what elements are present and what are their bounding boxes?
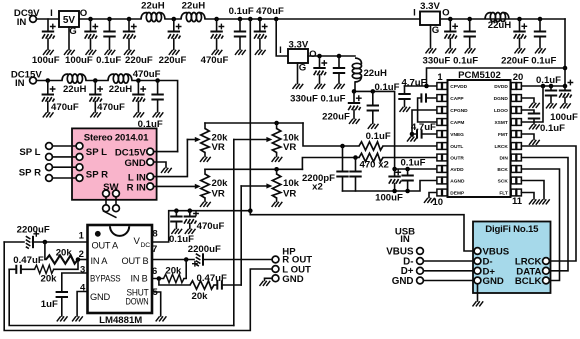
pin BCLK U7: [543, 277, 550, 284]
ground C7: [235, 50, 246, 55]
resistor R4 20k in A: [35, 260, 79, 274]
svg-text:470uF: 470uF: [197, 221, 225, 232]
terminal SPL+: [46, 143, 83, 150]
ground 5V G: [64, 50, 75, 55]
svg-text:220uF: 220uF: [501, 56, 529, 67]
capacitor C37 0.47uF in B: [217, 280, 241, 289]
ground C34: [171, 229, 182, 234]
ground VR1: [200, 157, 211, 162]
svg-text:IN: IN: [15, 78, 25, 89]
svg-text:IN B: IN B: [131, 273, 148, 283]
svg-text:0.1uF: 0.1uF: [320, 94, 345, 105]
svg-text:VR: VR: [212, 142, 225, 153]
wire U3 G pin: [430, 25, 432, 48]
svg-text:OUT A: OUT A: [92, 240, 119, 250]
ground DGND: [529, 103, 540, 108]
ground pin5 U6: [156, 316, 167, 321]
svg-text:7: 7: [152, 244, 157, 255]
ground stereo GND: [161, 168, 172, 173]
pin GND U7: [474, 277, 481, 301]
ground C12: [153, 112, 164, 117]
svg-text:GND: GND: [124, 158, 145, 169]
label USB IN: [395, 226, 415, 245]
svg-text:G: G: [299, 62, 306, 73]
wire AGND bottom line: [343, 181, 437, 192]
capacitor C22 flying 4.7uF CAPP-CAPM: [418, 93, 437, 122]
svg-text:5V: 5V: [63, 15, 76, 26]
wiper VR4 arrow: [241, 183, 272, 188]
label VR2 10k VR: [283, 133, 300, 154]
svg-text:0.1uF: 0.1uF: [366, 131, 391, 142]
capacitor C3 0.1uF: [103, 17, 115, 50]
label VR3 20k VR: [212, 178, 229, 200]
regulator U3 3.3V: [420, 1, 440, 25]
wiper VR2 arrow: [234, 137, 273, 142]
pin boxes U4 left: [437, 83, 447, 196]
capacitor C32 0.47uF in A: [9, 265, 34, 274]
svg-text:FMT: FMT: [498, 132, 508, 138]
terminal R OUT: [272, 256, 279, 263]
svg-text:2200uF: 2200uF: [17, 224, 50, 235]
wire 5V feed down: [248, 17, 253, 211]
capacitor C13 330uF: [313, 54, 327, 84]
svg-text:22uH: 22uH: [63, 84, 87, 95]
wire CPGND pin3: [410, 110, 437, 136]
svg-text:20k: 20k: [212, 178, 229, 189]
svg-text:0.1uF: 0.1uF: [540, 123, 565, 134]
svg-text:0.1uF: 0.1uF: [531, 56, 556, 67]
capacitor C24 2200pF: [336, 144, 348, 191]
terminal D- external: [417, 258, 475, 265]
svg-text:330uF: 330uF: [423, 56, 451, 67]
ground SCK: [539, 199, 550, 204]
ground C1: [43, 50, 54, 55]
ground C35: [185, 229, 196, 234]
capacitor C18 0.1uF: [464, 17, 476, 48]
svg-text:1: 1: [437, 72, 443, 83]
inductor L2 22uH: [181, 13, 205, 22]
svg-text:G: G: [69, 26, 76, 37]
ground C19: [515, 48, 526, 53]
ground C17: [445, 48, 456, 53]
capacitor C14 0.1uF: [333, 54, 345, 84]
capacitor C5 220uF: [168, 17, 182, 50]
svg-text:IN: IN: [17, 17, 27, 28]
svg-text:O: O: [442, 7, 450, 18]
resistor R5 20k feedback B: [152, 260, 186, 283]
resistor R6 20k in B: [159, 279, 217, 290]
wire SCK pin12: [521, 181, 544, 200]
svg-text:22uH: 22uH: [141, 0, 165, 11]
svg-text:3.3V: 3.3V: [420, 1, 440, 12]
svg-text:22uH: 22uH: [363, 68, 387, 79]
svg-text:22uH: 22uH: [109, 84, 133, 95]
svg-text:220uF: 220uF: [322, 112, 350, 123]
wire IN A bottom rail: [9, 269, 234, 325]
svg-text:22uH: 22uH: [488, 20, 512, 31]
wire GND pin4 U6: [77, 292, 87, 317]
wire VBUS 5V feed: [250, 211, 474, 251]
svg-text:FLT: FLT: [499, 190, 508, 196]
pin R IN: [147, 183, 195, 190]
ground C4: [124, 50, 135, 55]
terminal D+ external: [417, 267, 475, 274]
svg-text:0.1uF: 0.1uF: [169, 234, 194, 245]
wiper VR1 arrow: [187, 137, 200, 142]
pin L IN: [147, 140, 188, 181]
svg-text:G: G: [432, 25, 439, 36]
terminal SPR-: [46, 175, 83, 182]
resistor R2 470: [359, 153, 383, 161]
svg-text:DGND: DGND: [494, 96, 509, 102]
wire U2 G pin: [297, 63, 299, 84]
capacitor C12 0.1uF: [151, 78, 163, 112]
svg-text:DIN: DIN: [500, 155, 509, 161]
svg-text:LDOO: LDOO: [494, 108, 508, 114]
terminal SPR+: [46, 164, 83, 171]
inductor L1 22uH: [141, 13, 165, 22]
capacitor C8 470uF: [254, 17, 268, 50]
svg-text:BYPASS: BYPASS: [90, 273, 121, 283]
wire OUT A bottom rail: [4, 242, 272, 331]
wire BCK net: [521, 169, 559, 281]
pin DC15V: [147, 148, 178, 155]
resistor R3 20k feedback A: [45, 242, 88, 264]
svg-text:100uF: 100uF: [375, 193, 403, 204]
potentiometer VR3 20k: [201, 169, 209, 201]
inductor L4 22uH: [108, 74, 132, 83]
capacitor C29 100uF: [559, 80, 574, 103]
svg-text:GND: GND: [392, 276, 414, 287]
wire to 3.3V reg2 input: [274, 17, 288, 56]
capacitor C28 0.1uF: [545, 86, 557, 103]
capacitor C21 4.7uF: [398, 86, 410, 107]
svg-text:470uF: 470uF: [97, 102, 125, 113]
svg-text:470uF: 470uF: [256, 6, 284, 17]
regulator U2 3.3V: [288, 39, 309, 63]
inductor L3 22uH: [62, 74, 86, 83]
ground DEMP: [424, 198, 435, 203]
terminal HP GND: [265, 275, 279, 282]
wire DVDD pin20: [521, 84, 567, 89]
svg-text:I: I: [413, 7, 416, 18]
board U7 DigiFi No.15: [473, 222, 551, 294]
svg-text:O: O: [309, 49, 317, 60]
ground C16: [368, 124, 379, 129]
svg-text:0.1uF: 0.1uF: [536, 75, 561, 86]
label VR1 20k VR: [212, 133, 229, 154]
terminal SPL-: [46, 154, 83, 161]
ground C20: [535, 48, 546, 53]
svg-text:I: I: [279, 45, 282, 56]
ground VR3: [200, 202, 211, 207]
svg-text:DigiFi No.15: DigiFi No.15: [485, 224, 539, 235]
switch SW: [103, 190, 120, 217]
ground FMT: [529, 140, 540, 145]
pin names U4 right: [494, 84, 509, 196]
svg-text:3.3V: 3.3V: [289, 39, 309, 50]
op-amp U4 PCM5102 body: [448, 70, 511, 197]
wire AVDD node: [354, 91, 395, 169]
svg-text:CAPM: CAPM: [450, 120, 464, 126]
node DC9V IN label: [14, 8, 40, 28]
wire DEMP pin10: [429, 193, 437, 198]
wire OUTR to VR tops: [205, 167, 302, 172]
capacitor C34 0.1uF: [170, 211, 182, 229]
capacitor C31 2200uF OUT A: [4, 231, 87, 249]
wire FLT pin11: [521, 193, 534, 200]
ground C30: [529, 124, 540, 129]
wire DIN net: [521, 158, 568, 271]
svg-text:SP L: SP L: [19, 147, 40, 158]
capacitor C20 0.1uF: [534, 17, 546, 48]
wire U2 output rail: [308, 55, 355, 57]
svg-text:0.47uF: 0.47uF: [13, 255, 44, 266]
svg-text:x2: x2: [312, 182, 323, 193]
svg-text:Stereo 2014.01: Stereo 2014.01: [84, 132, 149, 143]
svg-text:I: I: [50, 8, 53, 19]
terminal VBUS external: [417, 248, 424, 255]
ground HP GND: [260, 281, 271, 286]
svg-text:SCK: SCK: [498, 178, 509, 184]
capacitor C4 220uF: [123, 17, 137, 50]
svg-text:PCM5102: PCM5102: [458, 70, 501, 81]
svg-text:OUT B: OUT B: [122, 256, 149, 266]
svg-text:22uH: 22uH: [182, 0, 206, 11]
capacitor C26 100uF: [388, 169, 401, 193]
op-amp U6 LM4881M body: [88, 225, 153, 313]
svg-text:20k: 20k: [191, 291, 208, 302]
capacitor C1 100uF: [42, 19, 56, 50]
wire OUTL to VR tops: [205, 121, 303, 126]
svg-text:R IN: R IN: [127, 182, 146, 193]
svg-text:SP R: SP R: [19, 167, 41, 178]
label VR4 10k VR: [283, 178, 300, 200]
ground FLT: [529, 199, 540, 204]
wire FMT pin16: [521, 134, 534, 140]
ground C14: [334, 84, 345, 89]
svg-text:AVDD: AVDD: [450, 167, 464, 173]
ground C28: [546, 103, 557, 108]
svg-text:V: V: [134, 236, 141, 247]
svg-text:GND: GND: [282, 274, 303, 285]
pin LRCK U7: [543, 258, 550, 265]
svg-text:LRCK: LRCK: [494, 144, 508, 150]
svg-text:0.1uF: 0.1uF: [453, 56, 478, 67]
svg-text:LM4881M: LM4881M: [99, 315, 142, 326]
ground C21: [400, 107, 411, 112]
capacitor C10 470uF: [89, 78, 103, 112]
svg-text:BCLK: BCLK: [515, 276, 542, 287]
svg-text:470uF: 470uF: [201, 55, 229, 66]
wiper VR3 arrow: [195, 184, 201, 189]
capacitor C15 220uF: [348, 89, 362, 118]
capacitor C25 2200pF: [349, 155, 361, 191]
terminal L OUT: [272, 266, 279, 273]
svg-text:8: 8: [152, 229, 157, 240]
pin names U4 left: [450, 84, 468, 196]
capacitor C17 330uF: [444, 17, 458, 48]
capacitor C7 0.1uF: [234, 17, 246, 50]
ground C10: [90, 112, 101, 117]
svg-text:1: 1: [79, 231, 85, 242]
svg-text:100uF: 100uF: [550, 112, 578, 123]
ground C6: [212, 50, 223, 55]
svg-text:DOWN: DOWN: [126, 296, 149, 306]
capacitor C35 470uF: [184, 211, 199, 229]
svg-text:100uF: 100uF: [32, 55, 60, 66]
svg-text:VR: VR: [283, 142, 296, 153]
svg-text:OUTL: OUTL: [450, 144, 463, 150]
ground CPGND: [407, 137, 418, 142]
capacitor C27 0.1uF: [401, 169, 413, 193]
wire 5V G pin: [68, 27, 70, 50]
terminal GND external: [417, 277, 475, 284]
svg-text:0.1uF: 0.1uF: [374, 82, 399, 93]
svg-text:4.7uF: 4.7uF: [411, 122, 436, 133]
wire VDC pin8 U6: [152, 208, 253, 242]
ground VR4: [272, 202, 283, 207]
ground C13: [315, 84, 326, 89]
capacitor C19 220uF: [513, 17, 527, 48]
ground C2: [86, 50, 97, 55]
svg-text:DC: DC: [141, 242, 151, 249]
ground C33: [57, 316, 68, 321]
svg-text:DEMP: DEMP: [450, 190, 465, 196]
svg-text:470uF: 470uF: [51, 102, 79, 113]
svg-text:0.47uF: 0.47uF: [196, 273, 227, 284]
wire CPVDD pin1: [405, 84, 437, 89]
svg-text:IN A: IN A: [91, 256, 109, 266]
ground U7 GND: [473, 301, 484, 306]
ground VR2: [272, 157, 283, 162]
pin D- U7: [474, 258, 481, 265]
ground C9: [43, 112, 54, 117]
wire OUTR: [302, 158, 436, 170]
capacitor C2 100uF: [84, 17, 98, 50]
svg-text:OUTR: OUTR: [450, 155, 464, 161]
wire DGND pin19: [521, 98, 534, 103]
ground C18: [465, 48, 476, 53]
ground C3: [105, 50, 116, 55]
ground C29: [560, 103, 571, 108]
svg-text:20k: 20k: [40, 274, 57, 285]
svg-text:100uF: 100uF: [65, 55, 93, 66]
ground C15: [349, 119, 360, 124]
svg-text:SP L: SP L: [86, 147, 107, 158]
svg-text:470 x2: 470 x2: [360, 160, 389, 171]
svg-text:4.7uF: 4.7uF: [401, 78, 426, 89]
terminal DC15V IN: [30, 77, 37, 84]
svg-text:DVDD: DVDD: [494, 84, 508, 90]
pin texts U6: [90, 236, 150, 306]
svg-text:VR: VR: [212, 189, 225, 200]
svg-text:O: O: [80, 8, 88, 19]
capacitor C11 470uF: [132, 78, 146, 112]
svg-text:470uF: 470uF: [133, 69, 161, 80]
capacitor C36 2200uF OUT B: [152, 253, 272, 266]
svg-text:AGND: AGND: [450, 178, 465, 184]
potentiometer VR2 10k: [272, 123, 280, 157]
capacitor C23 4.7uF VNEG: [412, 129, 437, 138]
wire DC9V rail: [36, 18, 565, 20]
svg-text:GND: GND: [483, 276, 504, 287]
pin GND stereo: [147, 159, 166, 168]
svg-text:20: 20: [513, 72, 524, 83]
svg-text:20k: 20k: [56, 247, 73, 258]
node DC15V IN label: [11, 70, 43, 89]
svg-text:20k: 20k: [165, 265, 182, 276]
inductor L5 22uH vertical: [352, 58, 361, 91]
svg-text:BCK: BCK: [497, 167, 508, 173]
svg-text:CPGND: CPGND: [450, 108, 468, 114]
svg-text:330uF: 330uF: [290, 94, 318, 105]
svg-text:SP R: SP R: [86, 169, 108, 180]
svg-text:6: 6: [152, 266, 157, 277]
svg-text:0.1uF: 0.1uF: [400, 158, 425, 169]
svg-text:220uF: 220uF: [125, 55, 153, 66]
pin VBUS U7: [474, 248, 481, 255]
wire LRCK net: [521, 146, 576, 261]
ground U2 G: [293, 84, 304, 89]
svg-text:CAPP: CAPP: [450, 96, 464, 102]
svg-text:1uF: 1uF: [41, 299, 58, 310]
pin boxes U4 right: [511, 83, 521, 196]
board U5 Stereo 2014.01: [72, 128, 157, 199]
wire XSMT pullup: [521, 86, 543, 122]
svg-text:0.1uF: 0.1uF: [96, 55, 121, 66]
capacitor C9 470uF: [42, 78, 56, 112]
wire SHUTDOWN pin5 U6: [152, 292, 161, 316]
wire CPVDD feed: [427, 66, 568, 86]
capacitor C30 0.1uF LDOO: [521, 110, 540, 124]
svg-text:VR: VR: [283, 189, 296, 200]
inductor L6 22uH: [485, 13, 509, 22]
svg-text:CPVDD: CPVDD: [450, 84, 467, 90]
wire 3.3V rail right down: [564, 19, 566, 86]
svg-text:0.1uF: 0.1uF: [229, 6, 254, 17]
svg-text:XSMT: XSMT: [494, 120, 507, 126]
terminal DC9V IN: [30, 16, 37, 23]
svg-text:220uF: 220uF: [159, 55, 187, 66]
potentiometer VR1 20k: [201, 123, 209, 157]
resistor R1 470: [359, 142, 383, 150]
capacitor C16 0.1uF: [367, 89, 379, 123]
pin D+ U7: [474, 267, 481, 274]
ground C11: [133, 112, 144, 117]
svg-text:10k: 10k: [283, 178, 300, 189]
potentiometer VR4 10k: [272, 169, 280, 201]
svg-text:VNEG: VNEG: [450, 132, 464, 138]
capacitor C6 470uF: [210, 17, 224, 50]
svg-text:11: 11: [512, 196, 523, 207]
svg-text:2200uF: 2200uF: [188, 244, 221, 255]
wire OUTL: [303, 123, 437, 146]
pin DATA U7: [543, 267, 550, 274]
wire VR4 wiper down: [240, 186, 242, 285]
pin number labels U6: [79, 229, 159, 299]
capacitor C33 1uF bypass: [56, 273, 88, 316]
label C24 C25 2200pF x2: [302, 173, 335, 193]
ground U3 G: [426, 48, 437, 53]
wire VR2 wiper down: [233, 140, 235, 326]
svg-text:GND: GND: [90, 292, 111, 302]
ground C5: [169, 50, 180, 55]
ground C8: [255, 50, 266, 55]
wire AVDD pin8: [392, 167, 436, 172]
svg-text:IN: IN: [400, 234, 410, 245]
ground pin4 U6: [72, 316, 83, 321]
